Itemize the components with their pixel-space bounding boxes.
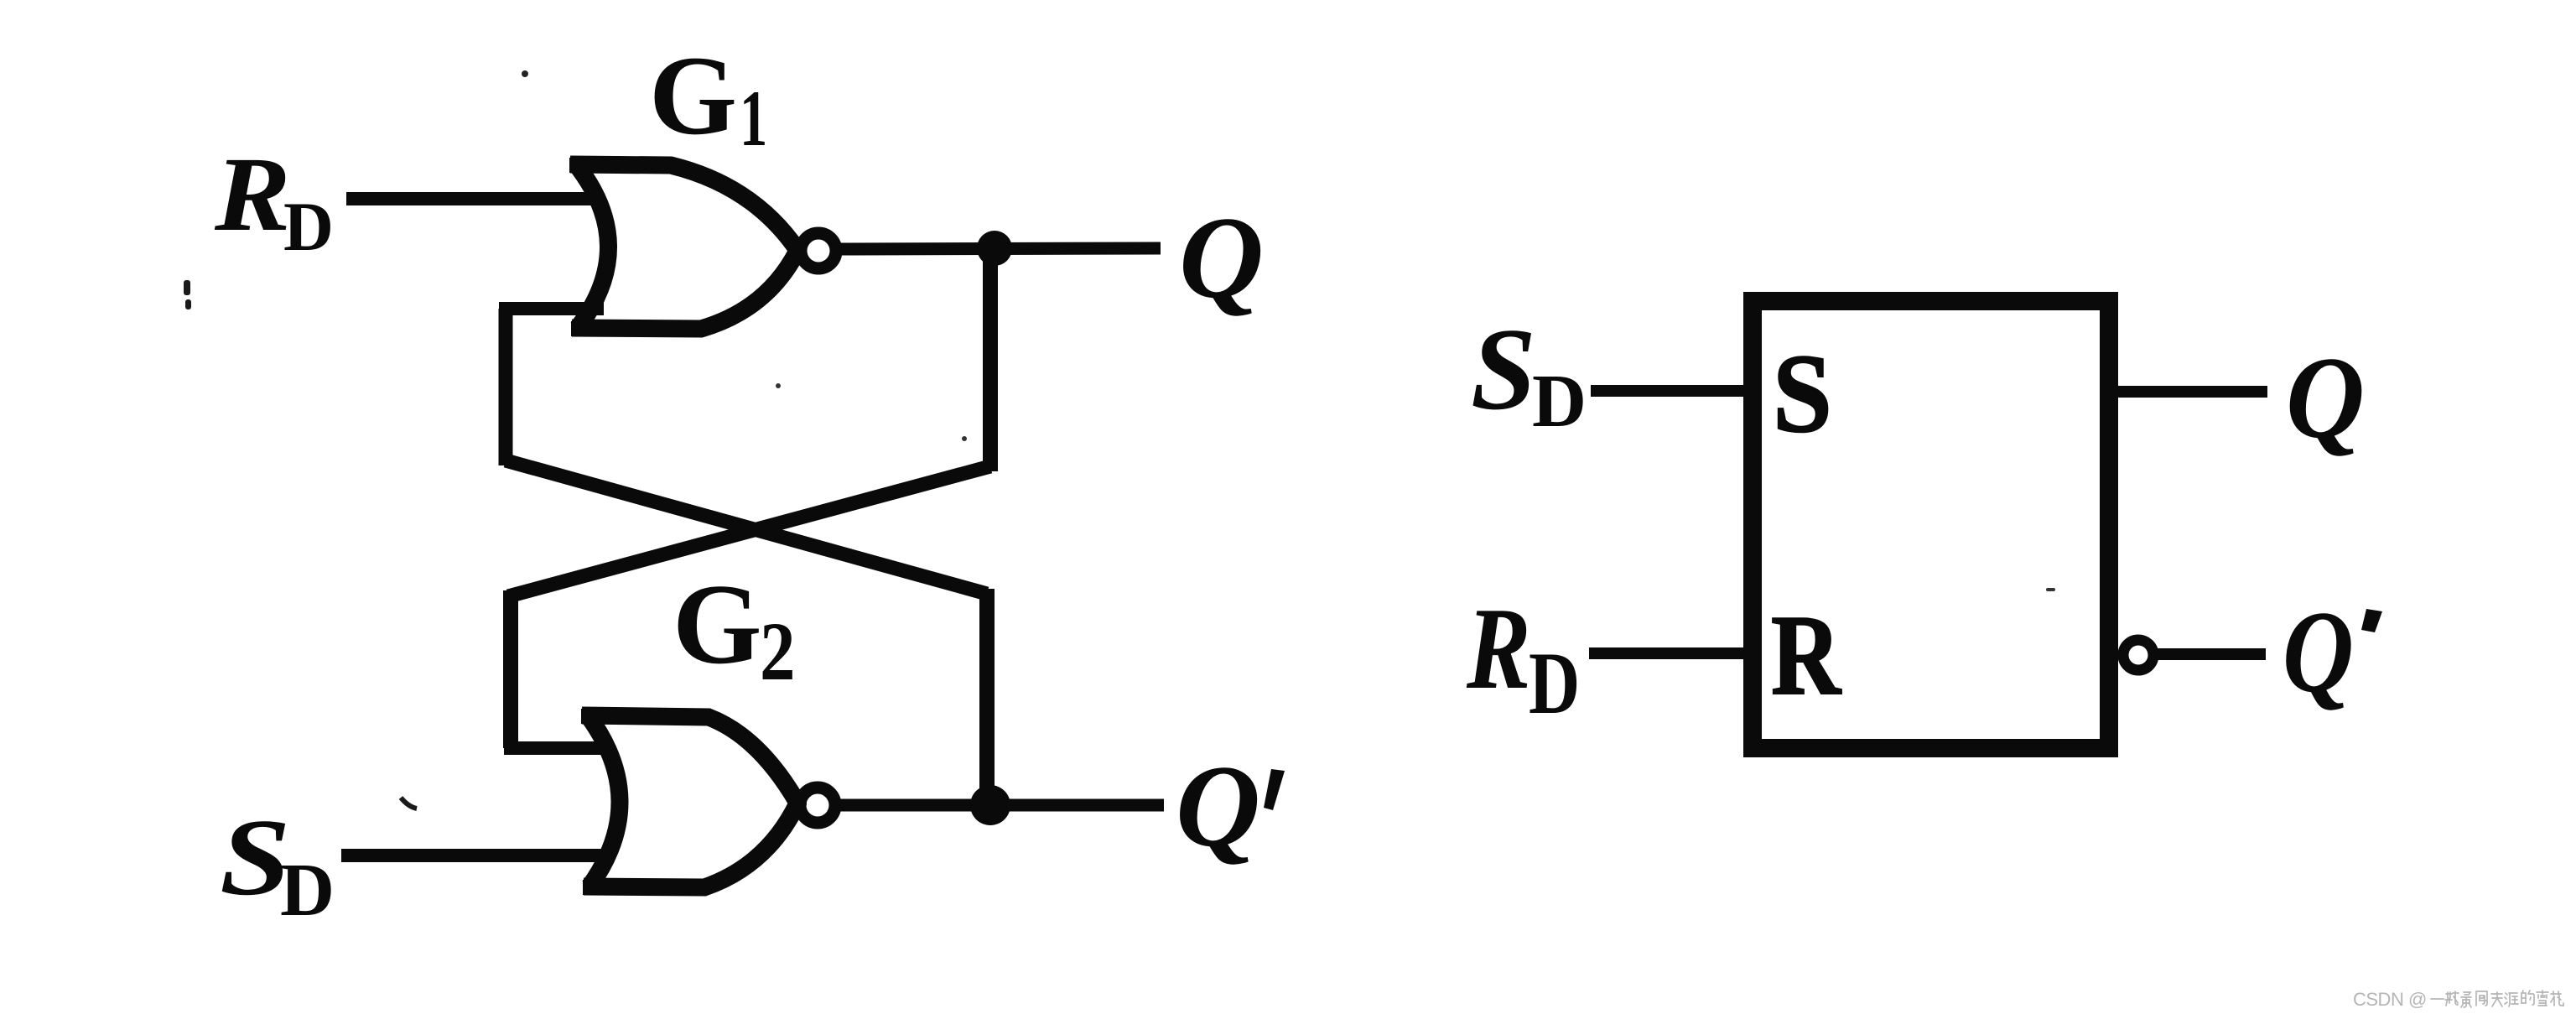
wire R_D input to G1 xyxy=(346,192,604,205)
char 天 xyxy=(2491,992,2502,1006)
label S_D (right) xyxy=(1471,304,1587,443)
wire left vertical from G1 input down xyxy=(499,309,513,465)
wire G1 lower input horizontal xyxy=(499,302,604,315)
wire G2 output to Q' xyxy=(838,799,1164,812)
svg-text:R: R xyxy=(1466,583,1530,713)
char 花 xyxy=(2551,991,2563,1006)
svg-text:R: R xyxy=(214,136,291,253)
svg-text:D: D xyxy=(280,849,335,932)
wire Q' output (right) xyxy=(2157,648,2266,660)
label R_D (right) xyxy=(1466,583,1580,732)
watermark CSDN @一瓶勇闯天涯的雪花 xyxy=(2353,989,2427,1010)
bubble on Q' output xyxy=(2123,640,2153,670)
wire left vertical down to G2 input xyxy=(503,590,518,748)
svg-text:1: 1 xyxy=(740,74,767,162)
label Q (right) xyxy=(2286,334,2365,463)
svg-text:Q: Q xyxy=(1179,193,1264,323)
wire right vertical down to Q' junction xyxy=(979,589,995,805)
label G2 xyxy=(673,560,796,699)
label G1 xyxy=(649,34,767,163)
wire cross-couple G1 input to Q' (diagonal) xyxy=(506,460,987,594)
char 雪 xyxy=(2537,991,2548,1006)
char 涯 xyxy=(2505,993,2518,1006)
svg-text:Q: Q xyxy=(2283,586,2354,716)
bubble of G1 output xyxy=(801,233,836,268)
stray dot mid xyxy=(776,383,781,388)
wire R_D to R pin xyxy=(1589,647,1745,659)
stray speck xyxy=(962,436,967,441)
wire G1 output to Q xyxy=(839,248,1161,249)
label R_D (input of gate G1) xyxy=(214,136,334,265)
wire S_D to S pin xyxy=(1591,385,1745,397)
gate G1 (NOR) xyxy=(570,164,797,329)
stray mark (scan artifact) left edge xyxy=(184,280,191,309)
gate G2 tip knot xyxy=(788,794,807,813)
svg-text:S: S xyxy=(1773,332,1832,456)
label S_D (input of gate G2) xyxy=(220,797,335,932)
pin label S xyxy=(1773,332,1832,456)
node Q junction xyxy=(977,231,1012,266)
svg-text:S: S xyxy=(1471,304,1536,434)
label Q' (right) xyxy=(2283,586,2382,716)
wire S_D input to G2 xyxy=(341,849,604,862)
label Q' (left circuit) xyxy=(1176,741,1285,871)
pin label R xyxy=(1771,592,1842,720)
svg-text:G: G xyxy=(673,560,762,688)
gate G2 back corner stubs xyxy=(581,709,598,724)
svg-text:D: D xyxy=(1529,633,1580,732)
block body U1 xyxy=(1753,301,2109,748)
char 勇 xyxy=(2461,992,2471,1007)
svg-text:CSDN @: CSDN @ xyxy=(2353,989,2427,1010)
char 瓶 xyxy=(2445,991,2459,1006)
char 一 xyxy=(2431,998,2444,1000)
stray mark near S_D wire xyxy=(401,798,417,809)
gate G1 tip knot xyxy=(788,242,807,260)
bubble of G2 output xyxy=(800,788,835,823)
char 闯 xyxy=(2476,991,2487,1006)
wire Q output (right) xyxy=(2118,386,2267,398)
svg-text:Q: Q xyxy=(1176,741,1260,871)
wire cross-couple Q to G2 input (diagonal) xyxy=(508,466,990,596)
stray dot right xyxy=(2046,588,2055,591)
char 的 xyxy=(2521,991,2534,1005)
svg-text:2: 2 xyxy=(760,606,796,699)
svg-text:R: R xyxy=(1771,592,1842,720)
svg-text:D: D xyxy=(283,188,334,265)
svg-text:G: G xyxy=(649,34,737,159)
wire horizontal into G2 upper input xyxy=(504,741,602,755)
svg-text:D: D xyxy=(1532,360,1587,443)
wire Q junction down xyxy=(983,248,998,471)
gate G1 back corner stubs xyxy=(569,158,586,173)
node Q' junction xyxy=(970,785,1010,825)
svg-text:Q: Q xyxy=(2286,334,2365,463)
gate G2 (NOR) xyxy=(582,715,797,887)
stray dot above G1 xyxy=(522,70,528,77)
